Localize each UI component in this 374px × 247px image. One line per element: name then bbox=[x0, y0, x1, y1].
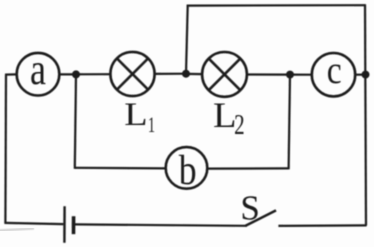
wire L1 to node2 bbox=[155, 73, 186, 75]
battery long plate (+) bbox=[63, 206, 66, 243]
wire battery to switch bbox=[75, 224, 247, 225]
wire b branch right vertical up to node3 bbox=[289, 75, 290, 170]
svg-text:S: S bbox=[240, 188, 259, 227]
wire node3 to meter c bbox=[290, 73, 312, 75]
wire node2 to L2 bbox=[186, 73, 202, 75]
wire bottom rail battery left bbox=[4, 223, 63, 224]
lamp L2 bbox=[202, 52, 247, 97]
ammeter A (circle a) bbox=[17, 53, 60, 96]
wire c to node4 bbox=[355, 73, 365, 75]
wire right vertical bbox=[365, 4, 366, 225]
svg-text:c: c bbox=[327, 48, 342, 92]
wire a to node1 bbox=[59, 73, 76, 75]
wire node1 to L1 bbox=[76, 73, 111, 75]
wire node1 down (b branch left vertical) bbox=[75, 74, 76, 168]
svg-text:L: L bbox=[213, 96, 237, 136]
wire L2 to node3 bbox=[247, 73, 290, 75]
lamp L1 bbox=[110, 52, 154, 96]
wire top rail bbox=[187, 4, 365, 7]
voltmeter B (circle b) bbox=[166, 147, 208, 189]
switch S lever bbox=[246, 210, 277, 225]
svg-text:2: 2 bbox=[234, 110, 245, 141]
wire switch to bottom right corner bbox=[278, 224, 366, 227]
scan smudge artifact bottom-left bbox=[0, 229, 34, 231]
battery short plate (-) bbox=[72, 216, 76, 234]
node 4 junction dot bbox=[362, 71, 370, 79]
svg-text:L: L bbox=[124, 96, 147, 133]
wire b to right corner bbox=[207, 167, 288, 169]
wire to voltmeter b bbox=[75, 167, 166, 170]
svg-text:b: b bbox=[179, 147, 197, 194]
wire top branch vertical (node2 up) bbox=[186, 6, 188, 74]
meter C (circle c) bbox=[312, 53, 355, 96]
wire left stub to ammeter bbox=[5, 73, 17, 75]
node 3 junction dot bbox=[286, 71, 294, 79]
svg-text:1: 1 bbox=[148, 113, 155, 138]
svg-text:a: a bbox=[30, 45, 46, 94]
node 2 junction dot bbox=[182, 70, 190, 78]
wire left vertical bbox=[4, 75, 7, 223]
node 1 junction dot bbox=[72, 70, 80, 78]
